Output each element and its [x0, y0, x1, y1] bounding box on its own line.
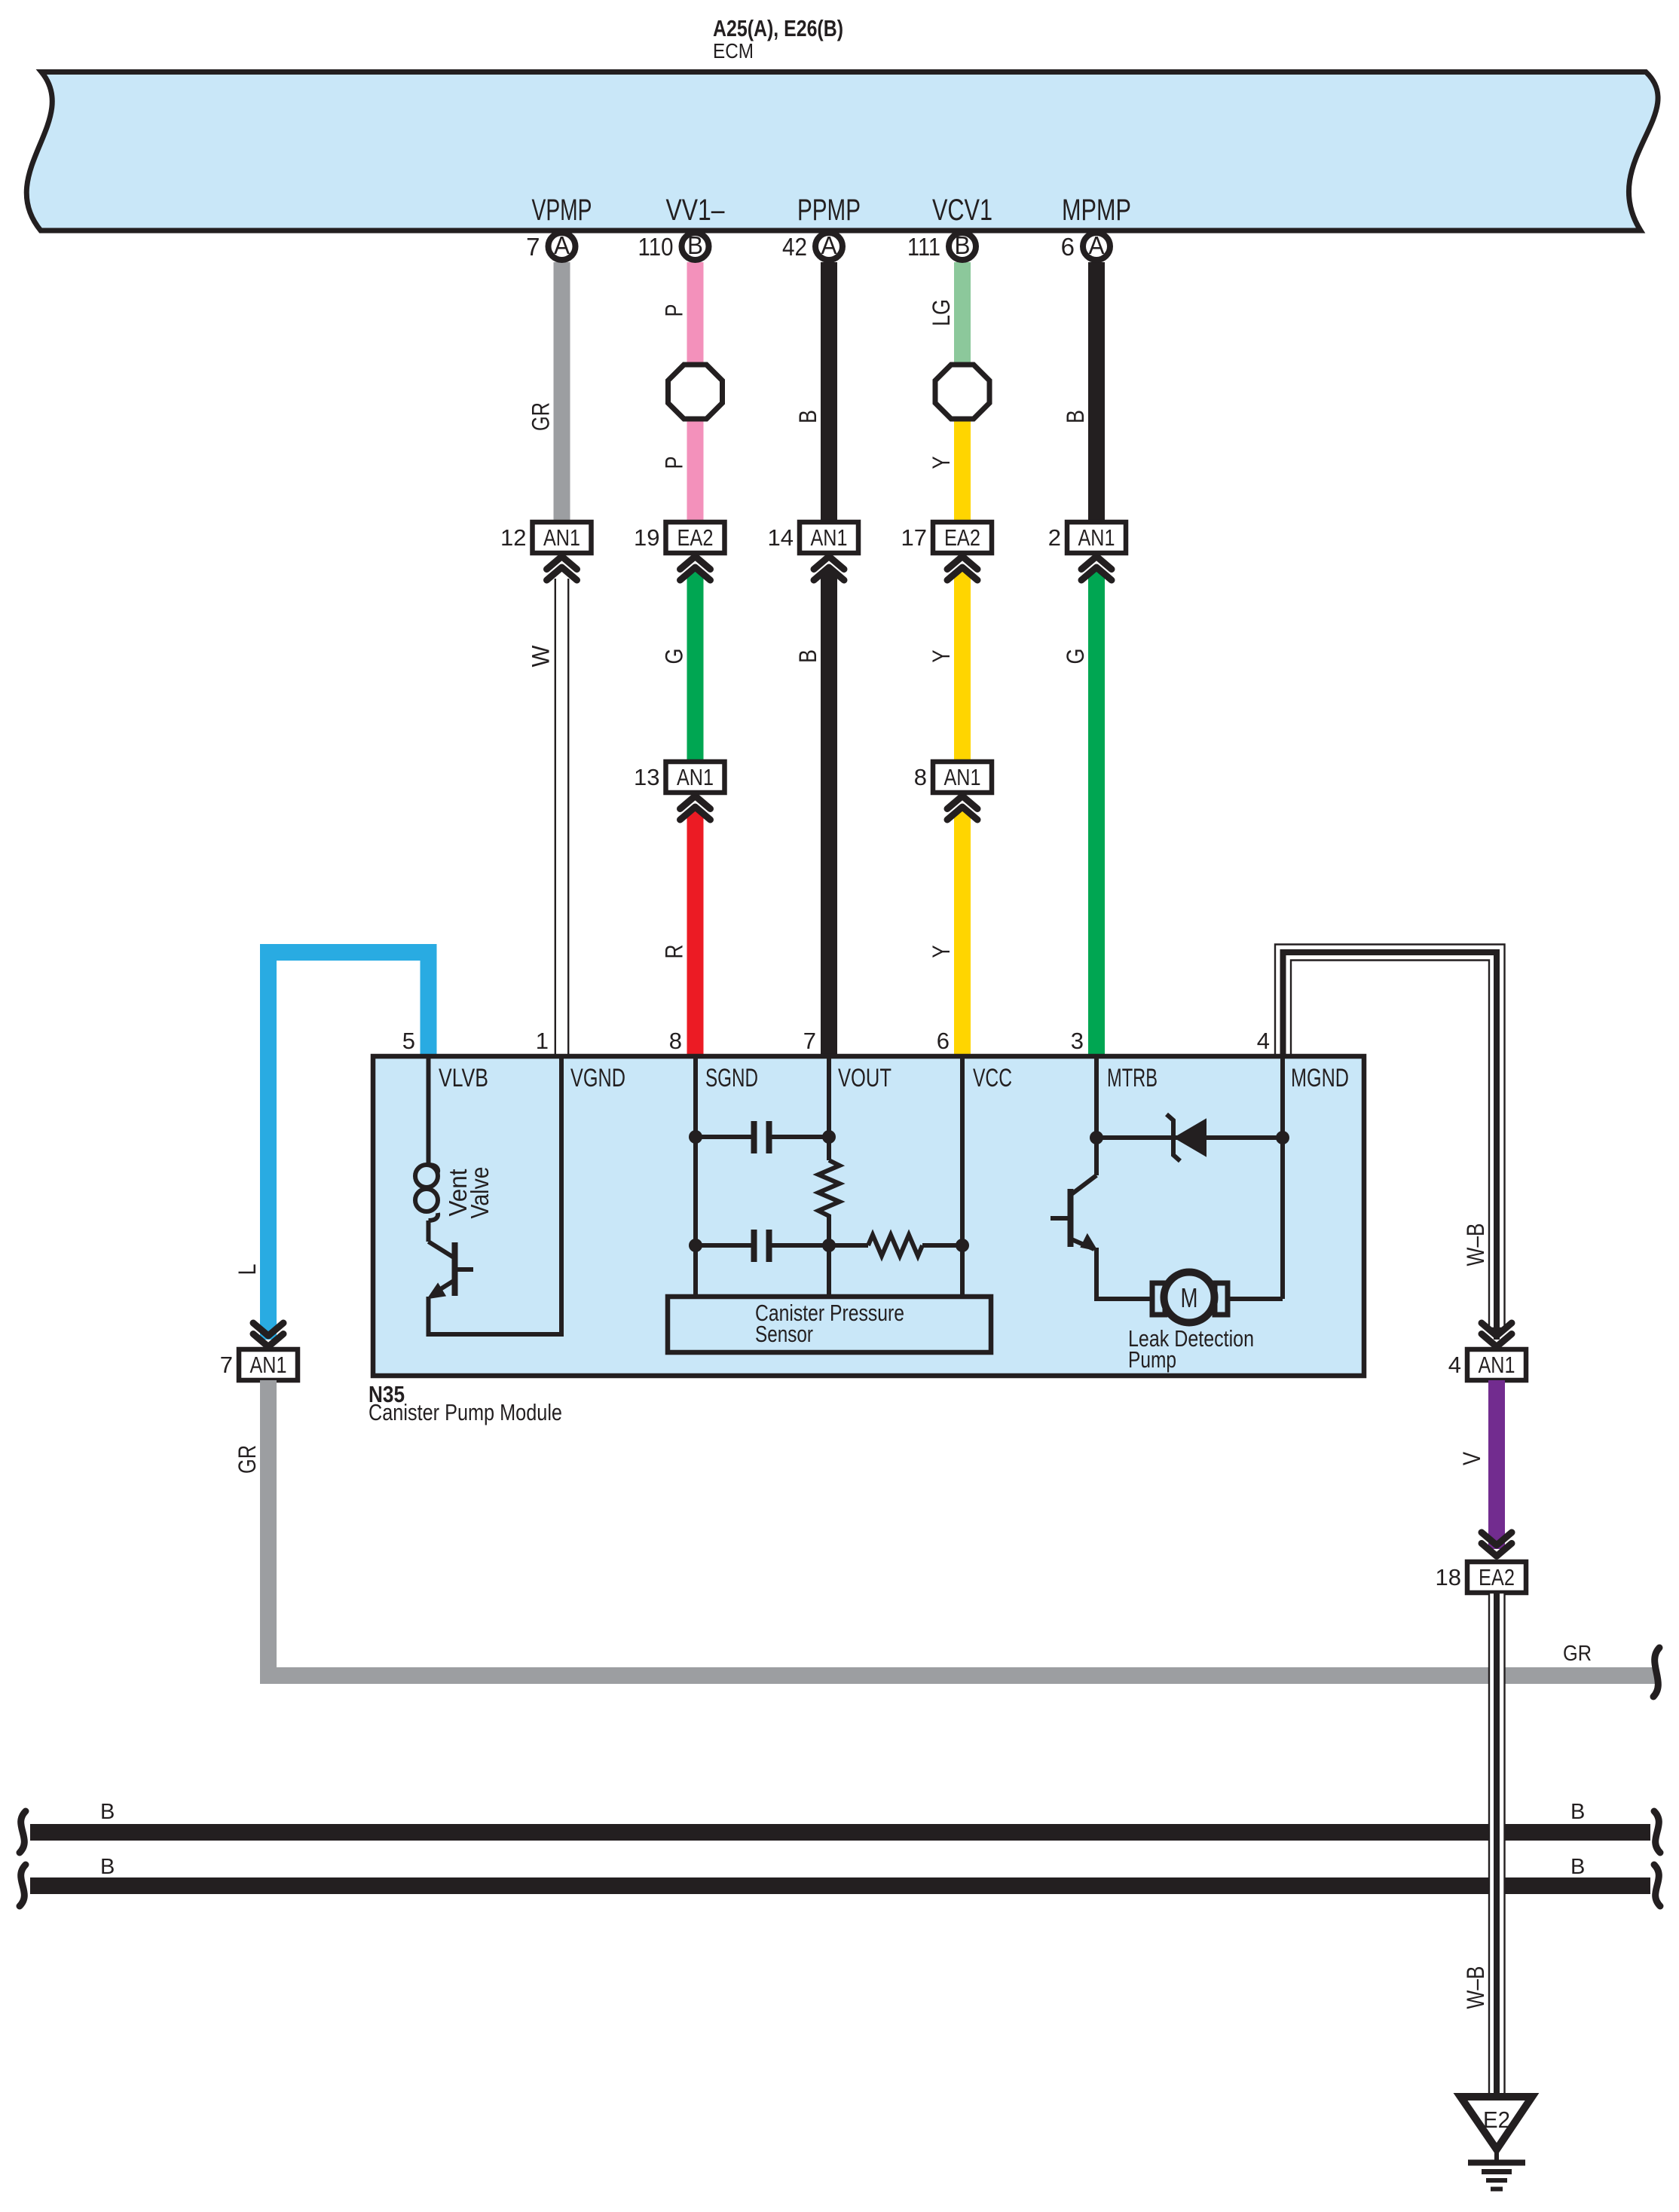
svg-text:2: 2 — [1048, 524, 1061, 551]
canister pressure sensor box — [668, 1297, 991, 1352]
wire label Y — [928, 650, 955, 663]
svg-text:6: 6 — [1061, 233, 1075, 261]
svg-text:M: M — [1181, 1282, 1198, 1313]
vent valve circuit wire from pin 5 — [427, 1059, 431, 1165]
svg-text:7: 7 — [803, 1028, 816, 1054]
svg-text:G: G — [1062, 649, 1089, 665]
junction dot SGND lower — [689, 1239, 702, 1252]
ground symbol E2 — [1460, 2097, 1532, 2189]
inline connector octagon on VCV1 wire — [935, 365, 989, 419]
break symbol upper bus right — [1654, 1811, 1660, 1853]
svg-text:AN1: AN1 — [944, 764, 981, 790]
junction dot MGND — [1276, 1131, 1289, 1144]
svg-text:GR: GR — [1563, 1642, 1592, 1666]
connector 19 EA2 — [634, 522, 724, 553]
wire label P lower — [661, 457, 688, 469]
ECM pin 42(A) circle — [782, 231, 843, 261]
wire label G — [1062, 649, 1089, 665]
zener diode line — [1096, 1135, 1283, 1140]
svg-text:VGND: VGND — [570, 1064, 625, 1092]
break symbol at GR wire end — [1653, 1648, 1659, 1697]
svg-text:111: 111 — [907, 233, 940, 261]
MGND wire — [1280, 1059, 1285, 1299]
svg-text:R: R — [661, 945, 688, 959]
svg-text:Pump: Pump — [1128, 1346, 1176, 1373]
wire B from ECM pin 6 to connector AN1-2 — [1088, 262, 1105, 524]
svg-text:8: 8 — [914, 764, 927, 790]
svg-text:VLVB: VLVB — [439, 1064, 488, 1092]
svg-text:EA2: EA2 — [944, 524, 980, 551]
wire B from AN1-14 to module pin 7 — [821, 571, 837, 1059]
zener diode D1 — [1167, 1114, 1206, 1161]
svg-text:AN1: AN1 — [543, 524, 580, 551]
svg-text:VPMP: VPMP — [532, 194, 592, 227]
svg-text:VCC: VCC — [973, 1064, 1012, 1092]
wire label Y — [928, 946, 955, 958]
svg-text:MGND: MGND — [1291, 1064, 1349, 1092]
svg-text:ECM: ECM — [713, 39, 754, 63]
svg-text:P: P — [661, 457, 688, 469]
svg-text:AN1: AN1 — [811, 524, 848, 551]
svg-text:SGND: SGND — [705, 1064, 758, 1092]
break symbol upper bus left — [20, 1811, 26, 1853]
chevron into AN1-2 — [1081, 557, 1112, 581]
svg-text:18: 18 — [1436, 1564, 1461, 1590]
wire G from AN1-2 to module pin 3 — [1088, 571, 1105, 1059]
wire label B — [794, 649, 821, 663]
svg-text:A: A — [554, 231, 570, 259]
svg-text:12: 12 — [500, 524, 526, 551]
wire label Y — [928, 457, 955, 469]
junction dot SGND upper — [689, 1130, 702, 1144]
svg-text:14: 14 — [768, 524, 794, 551]
svg-text:7: 7 — [526, 233, 540, 261]
wire label B — [794, 410, 821, 423]
vent valve transistor Q1 — [429, 1059, 562, 1334]
svg-text:L: L — [234, 1264, 261, 1276]
wire label GR rotated — [234, 1445, 261, 1474]
wire label GR — [528, 402, 555, 431]
svg-text:1: 1 — [536, 1028, 549, 1054]
svg-text:5: 5 — [402, 1028, 415, 1054]
wire GR from AN1-7 down and right — [260, 1380, 1656, 1684]
junction dot VCC — [956, 1239, 969, 1252]
svg-text:GR: GR — [528, 402, 555, 431]
svg-text:B: B — [794, 410, 821, 423]
wire label V — [1458, 1451, 1485, 1465]
wire label W-B — [1462, 1224, 1489, 1266]
capacitor C2 — [754, 1230, 769, 1262]
svg-text:Sensor: Sensor — [755, 1321, 813, 1347]
svg-text:W–B: W–B — [1462, 1224, 1489, 1266]
svg-text:B: B — [1570, 1855, 1585, 1879]
wire W-B from module pin 4 up right and down to connector AN1-4 (white with black stripe) — [1275, 945, 1505, 1340]
wire P from ECM pin 110 to connector EA2-19 — [687, 262, 704, 524]
svg-text:VV1–: VV1– — [666, 194, 726, 227]
connector 12 AN1 — [500, 522, 591, 553]
svg-text:EA2: EA2 — [677, 524, 714, 551]
svg-text:P: P — [661, 304, 688, 317]
pump transistor Q2 — [1051, 1175, 1152, 1299]
ECM pin 7(A) circle — [526, 231, 575, 261]
connector 8 AN1 — [914, 762, 992, 793]
vent valve coil — [415, 1165, 438, 1221]
svg-text:LG: LG — [928, 299, 955, 326]
wire B from ECM pin 42 to connector AN1-14 — [821, 262, 837, 524]
chevron into EA2-19 — [680, 557, 711, 581]
ground bus bar B upper — [30, 1824, 1650, 1841]
svg-text:AN1: AN1 — [677, 764, 714, 790]
resistor R2 horizontal — [868, 1235, 922, 1256]
chevron into AN1-4 — [1482, 1323, 1512, 1347]
svg-text:13: 13 — [634, 764, 659, 790]
svg-text:PPMP: PPMP — [797, 194, 861, 227]
svg-text:B: B — [100, 1855, 115, 1879]
svg-text:7: 7 — [220, 1352, 233, 1378]
wire LG from ECM pin 111 to octagon — [954, 262, 971, 392]
svg-text:8: 8 — [669, 1028, 682, 1054]
wire label W-B lower — [1462, 1966, 1489, 2009]
connector 2 AN1 — [1048, 522, 1126, 553]
svg-text:Y: Y — [928, 650, 955, 663]
svg-text:19: 19 — [634, 524, 659, 551]
wire label G — [661, 649, 688, 665]
inline connector octagon on VV1 wire — [668, 365, 723, 419]
svg-text:A25(A), E26(B): A25(A), E26(B) — [713, 15, 843, 41]
svg-text:42: 42 — [782, 233, 807, 261]
svg-text:B: B — [1062, 410, 1089, 423]
wire GR from ECM pin 7 to connector AN1-12 — [554, 262, 570, 524]
svg-text:B: B — [955, 231, 971, 259]
svg-text:MPMP: MPMP — [1062, 194, 1131, 227]
connector 13 AN1 — [634, 762, 724, 793]
canister pressure sensor internal wires — [696, 1059, 962, 1297]
wire W from AN1-12 to module pin 1 (white outline wire) — [555, 579, 568, 1059]
svg-text:W–B: W–B — [1462, 1966, 1489, 2009]
wire Y from EA2-17 to AN1-8 — [954, 571, 971, 763]
svg-text:Valve: Valve — [466, 1167, 494, 1219]
break symbol lower bus right — [1654, 1865, 1660, 1906]
chevron into AN1-14 — [814, 557, 844, 581]
svg-text:E2: E2 — [1483, 2107, 1510, 2133]
chevron into AN1-7 — [253, 1323, 283, 1347]
chevron into AN1-13 — [680, 796, 711, 820]
chevron into AN1-8 — [947, 796, 977, 820]
chevron into AN1-12 — [547, 557, 577, 581]
ECM pin 110(B) circle — [638, 231, 709, 261]
svg-text:A: A — [1089, 231, 1105, 259]
pump motor M — [1152, 1273, 1283, 1323]
svg-text:B: B — [100, 1800, 115, 1824]
svg-text:VCV1: VCV1 — [932, 194, 992, 227]
wire label P upper — [661, 304, 688, 317]
svg-text:Y: Y — [928, 946, 955, 958]
svg-text:AN1: AN1 — [1078, 524, 1115, 551]
svg-text:W: W — [528, 645, 555, 668]
svg-text:110: 110 — [638, 233, 674, 261]
wire Y from AN1-8 to module pin 6 — [954, 811, 971, 1059]
vent valve label — [444, 1169, 472, 1217]
svg-text:B: B — [687, 231, 703, 259]
connector 18 EA2 — [1436, 1562, 1526, 1593]
wire label B — [1062, 410, 1089, 423]
svg-text:EA2: EA2 — [1479, 1564, 1515, 1590]
svg-text:17: 17 — [901, 524, 927, 551]
wire Y from octagon to connector EA2-17 — [954, 392, 971, 524]
svg-text:Y: Y — [928, 457, 955, 469]
svg-text:Canister Pump Module: Canister Pump Module — [369, 1399, 562, 1425]
junction dot MTRB — [1090, 1131, 1103, 1144]
junction dot VOUT upper — [822, 1130, 836, 1144]
ECM block A25(A)/E26(B) — [26, 72, 1658, 231]
connector 17 EA2 — [901, 522, 992, 553]
wire V purple from AN1-4 to EA2-18 — [1488, 1380, 1505, 1549]
wire G from EA2-19 to AN1-13 — [687, 571, 704, 763]
svg-text:G: G — [661, 649, 688, 665]
wire W-B from EA2-18 down to ground E2 — [1489, 1593, 1505, 2097]
connector 7 AN1 — [220, 1349, 298, 1380]
break symbol lower bus left — [20, 1865, 26, 1906]
svg-text:4: 4 — [1448, 1352, 1461, 1378]
capacitor C1 — [754, 1121, 769, 1153]
ECM pin 111(B) circle — [907, 231, 976, 261]
svg-text:AN1: AN1 — [250, 1352, 287, 1378]
svg-text:V: V — [1458, 1451, 1485, 1465]
wire label W — [528, 645, 555, 668]
wire R from AN1-13 to module pin 8 — [687, 811, 704, 1059]
wire L blue from module pin 5 up and left to connector AN1-7 — [260, 944, 437, 1340]
svg-text:MTRB: MTRB — [1107, 1064, 1158, 1092]
connector 14 AN1 — [768, 522, 858, 553]
ground bus bar B lower — [30, 1877, 1650, 1894]
svg-text:4: 4 — [1257, 1028, 1270, 1054]
chevron into EA2-18 — [1482, 1532, 1512, 1557]
resistor R1 vertical — [818, 1160, 839, 1221]
junction dot VOUT lower — [822, 1239, 836, 1252]
svg-text:6: 6 — [937, 1028, 950, 1054]
connector 4 AN1 — [1448, 1349, 1526, 1380]
svg-text:GR: GR — [234, 1445, 261, 1474]
svg-text:AN1: AN1 — [1479, 1352, 1515, 1378]
svg-text:B: B — [794, 649, 821, 663]
svg-text:VOUT: VOUT — [838, 1064, 891, 1092]
ECM pin 6(A) circle — [1061, 231, 1110, 261]
chevron into EA2-17 — [947, 557, 977, 581]
leak detection pump circuit: MTRB wire — [1094, 1059, 1099, 1175]
svg-text:A: A — [821, 231, 837, 259]
canister pump module N35 box — [373, 1056, 1364, 1376]
wire label L — [234, 1264, 261, 1276]
svg-text:3: 3 — [1071, 1028, 1084, 1054]
wire label LG — [928, 299, 955, 326]
wire label R — [661, 945, 688, 959]
svg-text:B: B — [1570, 1800, 1585, 1824]
